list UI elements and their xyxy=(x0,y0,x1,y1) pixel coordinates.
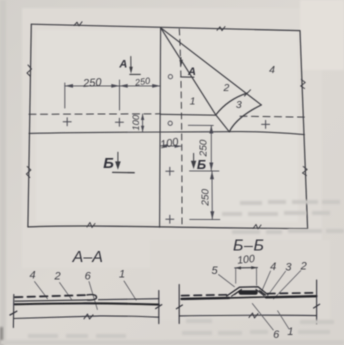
svg-text:А: А xyxy=(187,66,196,78)
subtle left margin shade xyxy=(0,0,6,345)
svg-text:5: 5 xyxy=(211,265,218,277)
fold: steep diagonal edge xyxy=(161,28,216,115)
extension line 100 right xyxy=(256,268,258,286)
ghost bleed-through text faint xyxy=(28,200,344,338)
B-B bottom line xyxy=(179,314,316,317)
svg-text:6: 6 xyxy=(85,271,92,283)
first vertical 250 dimension xyxy=(188,124,213,126)
B-B mound dark bar xyxy=(241,290,256,295)
A-A left end vertical xyxy=(12,295,14,328)
svg-text:1: 1 xyxy=(190,96,196,108)
svg-text:1: 1 xyxy=(119,268,125,280)
bottom extension line of 250 xyxy=(190,218,220,220)
dashed horizontal axis right part xyxy=(240,115,304,118)
B-B left end jog xyxy=(176,305,182,309)
fold: tick on diagonal at arc joint xyxy=(245,90,251,96)
svg-text:2: 2 xyxy=(222,82,229,94)
dimension 250+250 line xyxy=(65,85,161,87)
plus mark 5 xyxy=(166,215,174,223)
svg-text:2: 2 xyxy=(54,271,61,283)
svg-text:250: 250 xyxy=(82,77,103,90)
B-B mound inner right slope xyxy=(256,290,264,296)
dashed horizontal axis left part xyxy=(29,113,161,116)
svg-text:3: 3 xyxy=(285,262,292,274)
svg-text:4: 4 xyxy=(269,64,275,76)
A-A bottom break xyxy=(84,314,93,319)
break mark bottom edge right xyxy=(253,225,261,230)
svg-text:Б: Б xyxy=(103,155,114,172)
tiny dark mark bottom-left corner xyxy=(0,327,3,345)
middle extension line of 250s xyxy=(190,170,219,172)
leader 4 xyxy=(35,282,48,299)
section marker B right: arrow xyxy=(193,153,195,162)
svg-text:4: 4 xyxy=(29,269,35,281)
second vertical 250 dimension xyxy=(211,171,213,219)
section marker B left: arrow xyxy=(117,152,119,162)
plus mark 3 xyxy=(262,120,270,128)
svg-text:6: 6 xyxy=(273,329,280,341)
break mark right edge lower xyxy=(303,167,308,176)
extension line left xyxy=(64,83,66,108)
section marker B left: plane stroke xyxy=(113,171,135,173)
B-B mound outline xyxy=(227,287,268,296)
plan left edge xyxy=(28,24,31,227)
svg-text:100: 100 xyxy=(131,114,142,131)
vertical dimension 100 left of center xyxy=(142,114,144,132)
svg-text:А: А xyxy=(118,59,127,71)
B-B under-mound line xyxy=(229,296,266,299)
A-A thick deck line xyxy=(15,303,159,304)
A-A top dashed layer xyxy=(15,295,88,297)
A-A right end vertical xyxy=(158,291,160,324)
long solid horizontal line below axis xyxy=(29,132,304,135)
svg-text:А–А: А–А xyxy=(72,249,103,266)
B-B thick base line left xyxy=(182,298,230,299)
break mark top edge right xyxy=(217,27,225,31)
break mark left edge xyxy=(27,65,32,77)
B-B bottom break xyxy=(249,313,258,318)
B-B mound inner left slope xyxy=(232,290,242,297)
light top-right corner xyxy=(300,0,344,70)
bottom shade xyxy=(0,340,344,345)
plus mark 4 xyxy=(166,167,174,175)
break mark bottom edge left xyxy=(87,223,95,228)
svg-text:250: 250 xyxy=(201,189,212,207)
B-B right end jog xyxy=(314,304,320,308)
outer rectangle of plan xyxy=(31,24,307,228)
horizontal dimension 100 under axis xyxy=(160,145,181,147)
extension line 100 left xyxy=(235,268,237,283)
leader 3 xyxy=(267,271,286,297)
section marker A left: plane stroke xyxy=(130,73,141,75)
break mark left edge lower xyxy=(26,167,30,178)
lighter drawing area xyxy=(22,8,322,268)
section marker A center: arrow xyxy=(180,58,182,62)
section marker A left: arrow xyxy=(130,57,132,68)
fold: outer arc tail xyxy=(229,105,261,132)
leader 1 xyxy=(278,311,289,329)
leader 5 xyxy=(219,275,235,287)
lighter paper inside plan rectangle xyxy=(36,30,298,222)
svg-text:3: 3 xyxy=(236,99,242,111)
dimension line 100 xyxy=(235,267,258,269)
small circle node lower xyxy=(168,121,172,125)
center vertical line xyxy=(160,28,161,228)
dashed vertical line xyxy=(179,29,182,227)
A-A thin layer line xyxy=(15,300,88,301)
A-A surface line right xyxy=(99,299,159,300)
extension line middle xyxy=(119,80,121,110)
leader 4 xyxy=(261,271,271,293)
B-B left end vertical xyxy=(178,285,180,324)
plus mark 1 xyxy=(63,118,71,126)
A-A bottom line xyxy=(14,316,159,319)
leader 6 xyxy=(89,282,97,310)
A-A left end jog xyxy=(10,311,17,315)
B-B thick base line right xyxy=(266,296,316,297)
leader 6 xyxy=(252,304,273,331)
fold: inner arc between 2 and 3 xyxy=(216,93,248,115)
svg-text:1: 1 xyxy=(287,326,293,338)
B-B mound left slope hatch xyxy=(235,291,266,296)
fold: bottom edge along axis xyxy=(161,113,216,116)
B-B dashed layer right xyxy=(268,292,317,295)
B-B right end vertical xyxy=(316,280,318,324)
break mark top edge left xyxy=(74,22,82,26)
A-A layer end cap xyxy=(87,295,97,301)
dimension arrows 250 xyxy=(65,84,161,88)
fold: tip edge B to E xyxy=(216,115,230,132)
B-B dashed layer left xyxy=(182,294,228,297)
small circle node upper xyxy=(168,75,172,79)
leader 1 xyxy=(124,281,136,300)
plan bottom edge (slightly bowed) xyxy=(28,226,308,229)
svg-text:Б: Б xyxy=(197,157,206,172)
svg-text:100: 100 xyxy=(237,253,256,267)
plus mark 2 xyxy=(115,118,123,126)
svg-text:4: 4 xyxy=(270,261,276,273)
A-A right end jog xyxy=(156,305,162,309)
fold: long diagonal edge xyxy=(161,28,262,105)
svg-text:250: 250 xyxy=(198,139,209,157)
leader 2 xyxy=(60,283,72,300)
svg-text:Б–Б: Б–Б xyxy=(233,238,265,255)
leader 2 xyxy=(274,271,301,299)
break mark right edge upper xyxy=(301,80,306,89)
section marker A center: plane stroke xyxy=(181,76,194,78)
